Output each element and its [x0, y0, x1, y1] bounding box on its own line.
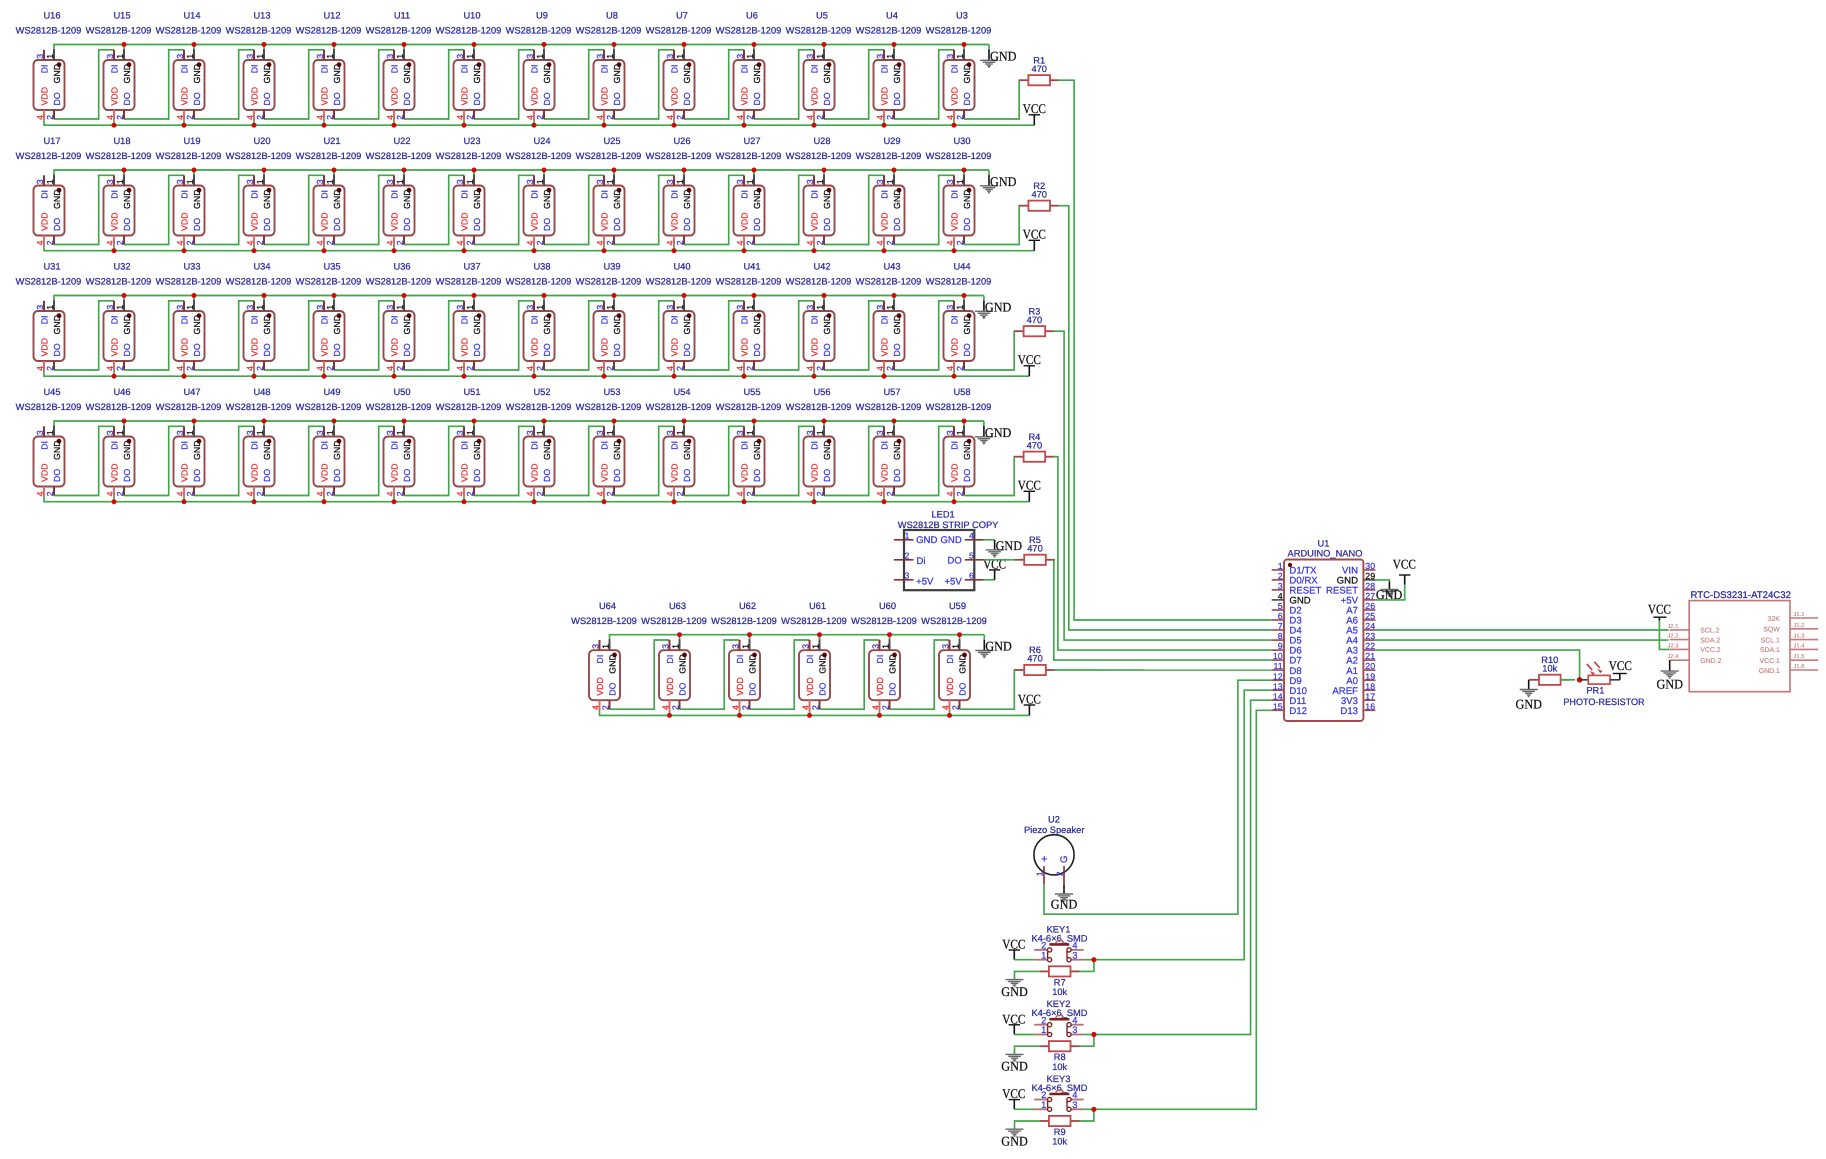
svg-text:DO: DO: [612, 469, 622, 482]
svg-text:WS2812B-1209: WS2812B-1209: [716, 26, 782, 36]
junction: [672, 499, 677, 504]
svg-text:WS2812B-1209: WS2812B-1209: [156, 402, 222, 412]
svg-text:1: 1: [675, 305, 685, 310]
svg-text:4: 4: [665, 115, 675, 120]
U32 pin 1 (GND): [123, 300, 125, 311]
svg-text:4: 4: [969, 530, 974, 540]
LED U33 (WS2812B-1209): [156, 262, 222, 371]
U58 pin-1 dot: [967, 439, 972, 444]
svg-text:3: 3: [1072, 949, 1077, 960]
svg-text:VDD: VDD: [739, 212, 749, 231]
U1 pin 8 (D5): [1272, 639, 1284, 641]
wire U44.DO to R3: [964, 331, 1015, 370]
U54 pin 2 (DO): [683, 487, 685, 496]
wire data link U57.DO to U58.DI: [894, 426, 954, 495]
U62 pin-1 dot: [752, 653, 757, 658]
U48 pin 4 (VDD): [253, 487, 255, 497]
U44 body: [944, 311, 975, 361]
svg-text:4: 4: [875, 491, 885, 496]
LED U12 (WS2812B-1209): [296, 11, 362, 120]
U58 pin 3 (DI): [953, 426, 955, 436]
wire pin4 drop: [113, 120, 115, 126]
svg-text:WS2812B-1209: WS2812B-1209: [926, 151, 992, 161]
svg-text:1: 1: [601, 644, 611, 649]
svg-text:23: 23: [1365, 631, 1375, 641]
svg-text:U46: U46: [113, 387, 130, 397]
svg-text:WS2812B-1209: WS2812B-1209: [576, 151, 642, 161]
U61 pin 3 (DI): [809, 640, 811, 650]
svg-text:WS2812B-1209: WS2812B-1209: [296, 277, 362, 287]
svg-text:GND: GND: [122, 189, 132, 209]
wire pin4 drop: [323, 245, 325, 251]
U12 pin 2 (DO): [333, 110, 335, 119]
U48 pin-1 dot: [267, 439, 272, 444]
svg-text:DO: DO: [332, 92, 342, 105]
U11 pin 3 (DI): [393, 50, 395, 60]
svg-text:VDD: VDD: [39, 463, 49, 482]
svg-text:R8: R8: [1054, 1052, 1066, 1062]
svg-text:GND: GND: [607, 654, 617, 674]
svg-text:VDD: VDD: [949, 87, 959, 106]
RTC pin J1.6 (GND.1): [1790, 669, 1818, 671]
svg-text:4: 4: [175, 491, 185, 496]
svg-text:U23: U23: [463, 136, 480, 146]
svg-text:18: 18: [1365, 681, 1375, 691]
svg-text:4: 4: [105, 491, 115, 496]
wire data link U37.DO to U38.DI: [474, 301, 534, 370]
svg-text:2: 2: [115, 491, 125, 496]
svg-text:1: 1: [255, 305, 265, 310]
wire pin4 drop: [463, 120, 465, 126]
svg-text:DI: DI: [599, 64, 609, 73]
U14 pin 3 (DI): [183, 50, 185, 60]
switch KEY1 (K4-6x6_SMD): [1031, 924, 1087, 962]
U37 pin 2 (DO): [473, 361, 475, 370]
svg-text:U3: U3: [956, 11, 968, 21]
svg-text:DO: DO: [542, 92, 552, 105]
svg-text:VDD: VDD: [665, 677, 675, 696]
U46 pin 1 (GND): [123, 426, 125, 437]
U52 pin 2 (DO): [543, 487, 545, 496]
junction: [812, 374, 817, 379]
svg-text:DI: DI: [879, 315, 889, 324]
U63 body: [659, 650, 690, 700]
junction: [892, 419, 897, 424]
svg-text:19: 19: [1365, 671, 1375, 681]
U55 pin-1 dot: [757, 439, 762, 444]
junction: [402, 293, 407, 298]
svg-text:WS2812B-1209: WS2812B-1209: [781, 616, 847, 626]
wire pin4 drop: [323, 496, 325, 502]
svg-text:GND: GND: [332, 64, 342, 84]
svg-text:WS2812B-1209: WS2812B-1209: [506, 402, 572, 412]
U16 pin 3 (DI): [43, 50, 45, 60]
svg-text:DI: DI: [949, 441, 959, 450]
svg-text:2: 2: [1278, 571, 1283, 581]
U31 pin 3 (DI): [43, 301, 45, 311]
svg-text:WS2812B-1209: WS2812B-1209: [16, 277, 82, 287]
svg-text:K4-6×6_SMD: K4-6×6_SMD: [1031, 933, 1087, 943]
wire pin4 drop: [669, 710, 671, 716]
svg-text:3: 3: [801, 644, 811, 649]
svg-text:DI: DI: [109, 441, 119, 450]
svg-text:DO: DO: [612, 343, 622, 356]
svg-text:VDD: VDD: [949, 212, 959, 231]
svg-text:GND: GND: [990, 49, 1017, 64]
U29 pin-1 dot: [897, 188, 902, 193]
svg-text:U8: U8: [606, 11, 618, 21]
svg-text:WS2812B-1209: WS2812B-1209: [856, 151, 922, 161]
svg-text:GND: GND: [332, 189, 342, 209]
KEY1 pin 4: [1071, 949, 1084, 951]
wire pin1 drop: [963, 421, 965, 426]
svg-text:DI: DI: [809, 190, 819, 199]
svg-text:VDD: VDD: [875, 677, 885, 696]
svg-text:1: 1: [675, 179, 685, 184]
U28 pin 2 (DO): [823, 236, 825, 245]
U16 body: [34, 60, 65, 110]
LED1 pin 2 (Di): [894, 559, 914, 561]
U9 pin 3 (DI): [533, 50, 535, 60]
svg-text:3: 3: [595, 179, 605, 184]
svg-text:2: 2: [185, 491, 195, 496]
junction: [542, 293, 547, 298]
U25 pin-1 dot: [617, 188, 622, 193]
svg-text:U62: U62: [739, 601, 756, 611]
svg-text:WS2812B-1209: WS2812B-1209: [576, 402, 642, 412]
GND net flag (row R1): [980, 49, 1017, 68]
U1 pin 1 (D1/TX): [1272, 569, 1284, 571]
svg-text:VDD: VDD: [249, 338, 259, 357]
wire data link U38.DO to U39.DI: [544, 301, 604, 370]
U64 pin 1 (GND): [609, 639, 611, 650]
U20 pin 3 (DI): [253, 175, 255, 185]
wire pin4 drop: [743, 120, 745, 126]
svg-text:1: 1: [465, 305, 475, 310]
U47 pin 1 (GND): [193, 426, 195, 437]
junction: [817, 632, 822, 637]
U49 pin-1 dot: [337, 439, 342, 444]
svg-text:GND: GND: [192, 64, 202, 84]
svg-text:3: 3: [735, 305, 745, 310]
svg-text:5: 5: [969, 550, 974, 560]
U39 pin 3 (DI): [603, 301, 605, 311]
svg-text:1: 1: [1278, 561, 1283, 571]
wire R8 to GND: [1015, 1046, 1040, 1054]
U15 pin-1 dot: [127, 62, 132, 67]
U35 pin 4 (VDD): [323, 361, 325, 371]
svg-text:VDD: VDD: [459, 463, 469, 482]
svg-text:J2.3: J2.3: [1668, 642, 1679, 649]
svg-text:DO: DO: [892, 469, 902, 482]
U40 body: [664, 311, 695, 361]
RTC pin J1.4 (SDA.1): [1790, 648, 1818, 650]
U39 body: [594, 311, 625, 361]
U45 pin 2 (DO): [53, 487, 55, 496]
junction: [542, 168, 547, 173]
GND net flag (row R3): [975, 300, 1012, 319]
wire data link U64.DO to U63.DI: [610, 640, 670, 709]
U9 body: [524, 60, 555, 110]
svg-text:GND: GND: [402, 440, 412, 460]
wire data link U10.DO to U9.DI: [474, 50, 534, 119]
VCC net flag (U1): [1393, 557, 1416, 585]
U27 pin 1 (GND): [753, 175, 755, 186]
svg-text:DI: DI: [179, 64, 189, 73]
U1 pin 14 (D11): [1272, 699, 1284, 701]
LED U39 (WS2812B-1209): [576, 262, 642, 371]
junction: [322, 499, 327, 504]
svg-text:DO: DO: [472, 343, 482, 356]
svg-text:GND: GND: [402, 64, 412, 84]
svg-text:VCC: VCC: [1018, 478, 1041, 493]
U43 pin-1 dot: [897, 313, 902, 318]
svg-text:DO: DO: [332, 218, 342, 231]
U23 pin 2 (DO): [473, 236, 475, 245]
svg-text:3: 3: [175, 305, 185, 310]
svg-text:VDD: VDD: [529, 87, 539, 106]
VCC net flag (KEY2): [1002, 1011, 1025, 1034]
svg-text:GND: GND: [985, 300, 1012, 315]
svg-text:+5V: +5V: [916, 576, 934, 587]
junction: [322, 248, 327, 253]
U26 pin 1 (GND): [683, 175, 685, 186]
svg-text:DO: DO: [612, 218, 622, 231]
svg-text:U22: U22: [393, 136, 410, 146]
svg-text:DO: DO: [542, 469, 552, 482]
svg-text:4: 4: [385, 115, 395, 120]
svg-text:1: 1: [885, 305, 895, 310]
svg-text:J1.1: J1.1: [1794, 612, 1805, 618]
U28 pin 4 (VDD): [813, 236, 815, 246]
PR1 arrows: [1587, 664, 1592, 670]
svg-text:4: 4: [735, 240, 745, 245]
svg-text:VDD: VDD: [599, 338, 609, 357]
svg-text:DI: DI: [739, 315, 749, 324]
svg-text:DI: DI: [39, 64, 49, 73]
svg-text:1: 1: [671, 644, 681, 649]
U48 pin 3 (DI): [253, 426, 255, 436]
U50 pin 4 (VDD): [393, 487, 395, 497]
wire data link U35.DO to U36.DI: [334, 301, 394, 370]
svg-text:1: 1: [745, 54, 755, 59]
wire pin1 drop: [753, 170, 755, 175]
svg-text:1: 1: [325, 54, 335, 59]
svg-text:3: 3: [315, 54, 325, 59]
U14 pin 1 (GND): [193, 49, 195, 60]
U1 pin 17 (3V3): [1363, 699, 1375, 701]
LED U3 (WS2812B-1209): [926, 11, 992, 120]
svg-text:GND: GND: [332, 440, 342, 460]
svg-text:1: 1: [741, 644, 751, 649]
svg-text:3: 3: [805, 54, 815, 59]
svg-text:U10: U10: [463, 11, 480, 21]
U63 pin 1 (GND): [679, 639, 681, 650]
U39 pin-1 dot: [617, 313, 622, 318]
wire pin1 drop: [403, 421, 405, 426]
wire pin4 drop: [323, 120, 325, 126]
U56 pin 1 (GND): [823, 426, 825, 437]
wire pin1 drop: [263, 421, 265, 426]
U29 pin 1 (GND): [893, 175, 895, 186]
wire pin1 drop: [263, 296, 265, 301]
U34 pin 1 (GND): [263, 300, 265, 311]
wire pin4 drop: [463, 496, 465, 502]
svg-text:3: 3: [385, 54, 395, 59]
U13 pin 3 (DI): [253, 50, 255, 60]
svg-text:DI: DI: [249, 190, 259, 199]
wire pin1 drop: [823, 421, 825, 426]
svg-text:DI: DI: [389, 315, 399, 324]
U58 pin 1 (GND): [963, 426, 965, 437]
LED U62 (WS2812B-1209): [711, 601, 777, 710]
LED U25 (WS2812B-1209): [576, 136, 642, 245]
svg-text:1: 1: [675, 54, 685, 59]
U37 pin 4 (VDD): [463, 361, 465, 371]
RTC pin J2.3 (VCC.2): [1670, 648, 1690, 650]
svg-text:U36: U36: [393, 262, 410, 272]
svg-text:DO: DO: [752, 343, 762, 356]
U8 pin-1 dot: [617, 62, 622, 67]
svg-text:WS2812B-1209: WS2812B-1209: [716, 151, 782, 161]
svg-text:VCC: VCC: [1609, 658, 1632, 673]
LED U8 (WS2812B-1209): [576, 11, 642, 120]
svg-text:1: 1: [815, 179, 825, 184]
svg-text:D12: D12: [1289, 706, 1307, 717]
U49 pin 2 (DO): [333, 487, 335, 496]
svg-text:2: 2: [955, 115, 965, 120]
svg-text:J1.3: J1.3: [1794, 633, 1805, 640]
svg-text:2: 2: [601, 705, 611, 710]
junction: [952, 374, 957, 379]
svg-text:4: 4: [245, 240, 255, 245]
U4 pin-1 dot: [897, 62, 902, 67]
junction: [752, 293, 757, 298]
svg-text:GND: GND: [192, 189, 202, 209]
wire data link U4.DO to U3.DI: [894, 50, 954, 119]
svg-text:DO: DO: [682, 92, 692, 105]
U62 pin 3 (DI): [739, 640, 741, 650]
U1 pin 18 (AREF): [1363, 689, 1375, 691]
U3 pin 2 (DO): [963, 110, 965, 119]
svg-text:U56: U56: [813, 387, 830, 397]
svg-text:GND: GND: [962, 315, 972, 335]
svg-text:3: 3: [525, 54, 535, 59]
junction: [952, 499, 957, 504]
svg-text:3: 3: [315, 430, 325, 435]
svg-text:VDD: VDD: [879, 463, 889, 482]
svg-text:WS2812B-1209: WS2812B-1209: [506, 26, 572, 36]
svg-text:GND: GND: [1516, 697, 1543, 712]
svg-text:VDD: VDD: [669, 338, 679, 357]
wire GND rail (row of U16..U3): [54, 45, 989, 50]
U50 pin 3 (DI): [393, 426, 395, 436]
GND net flag (row R6): [975, 639, 1012, 658]
LED U61 (WS2812B-1209): [781, 601, 847, 710]
LED U5 (WS2812B-1209): [786, 11, 852, 120]
U1 pin 4 (GND): [1272, 599, 1284, 601]
wire pin4 drop: [533, 245, 535, 251]
wire pin1 drop: [123, 45, 125, 50]
svg-text:DI: DI: [109, 315, 119, 324]
wire pin1 drop: [193, 421, 195, 426]
svg-text:VDD: VDD: [879, 87, 889, 106]
svg-text:U60: U60: [879, 601, 896, 611]
wire data link U12.DO to U11.DI: [334, 50, 394, 119]
svg-text:1: 1: [745, 305, 755, 310]
wire data link U23.DO to U24.DI: [474, 175, 534, 244]
wire GND flag drop: [983, 296, 985, 301]
svg-text:U25: U25: [603, 136, 620, 146]
svg-text:470: 470: [1027, 315, 1043, 325]
svg-text:4: 4: [595, 115, 605, 120]
LED U31 (WS2812B-1209): [16, 262, 82, 371]
svg-text:VDD: VDD: [945, 677, 955, 696]
U6 pin-1 dot: [757, 62, 762, 67]
U5 body: [804, 60, 835, 110]
svg-text:DO: DO: [892, 343, 902, 356]
svg-text:1: 1: [885, 179, 895, 184]
svg-text:3: 3: [105, 430, 115, 435]
svg-text:WS2812B-1209: WS2812B-1209: [366, 26, 432, 36]
svg-text:U41: U41: [743, 262, 760, 272]
wire data link U50.DO to U51.DI: [404, 426, 464, 495]
U16 pin-1 dot: [57, 62, 62, 67]
junction: [882, 123, 887, 128]
photo-resistor PR1: [1563, 662, 1644, 707]
svg-text:GND: GND: [940, 535, 961, 546]
svg-text:1: 1: [1041, 949, 1046, 960]
svg-text:GND: GND: [752, 189, 762, 209]
svg-text:2: 2: [395, 240, 405, 245]
U31 pin 4 (VDD): [43, 361, 45, 371]
svg-text:DI: DI: [179, 190, 189, 199]
junction: [322, 123, 327, 128]
wire pin1 drop: [123, 170, 125, 175]
U53 body: [594, 437, 625, 487]
svg-text:DI: DI: [669, 315, 679, 324]
U1 pin-1 dot: [1288, 563, 1292, 567]
svg-text:VDD: VDD: [879, 212, 889, 231]
svg-text:4: 4: [105, 366, 115, 371]
wire data link U5.DO to U4.DI: [824, 50, 884, 119]
U12 pin 4 (VDD): [323, 110, 325, 120]
wire data link U22.DO to U23.DI: [404, 175, 464, 244]
junction: [612, 293, 617, 298]
svg-text:GND: GND: [817, 654, 827, 674]
U1 pin 7 (D4): [1272, 629, 1284, 631]
wire data link U24.DO to U25.DI: [544, 175, 604, 244]
svg-text:4: 4: [105, 240, 115, 245]
U3 pin 1 (GND): [963, 49, 965, 60]
wire pin4 drop: [113, 245, 115, 251]
svg-text:DO: DO: [962, 218, 972, 231]
svg-text:U63: U63: [669, 601, 686, 611]
svg-text:2: 2: [885, 115, 895, 120]
U22 pin-1 dot: [407, 188, 412, 193]
svg-text:2: 2: [465, 366, 475, 371]
KEY3 pin 4: [1071, 1099, 1084, 1101]
svg-text:GND: GND: [332, 315, 342, 335]
U28 pin 3 (DI): [813, 175, 815, 185]
svg-text:J1.6: J1.6: [1794, 663, 1805, 670]
svg-text:GND: GND: [52, 64, 62, 84]
wire pin4 drop: [743, 496, 745, 502]
junction: [747, 632, 752, 637]
U43 pin 2 (DO): [893, 361, 895, 370]
U45 pin 4 (VDD): [43, 487, 45, 497]
U53 pin 2 (DO): [613, 487, 615, 496]
